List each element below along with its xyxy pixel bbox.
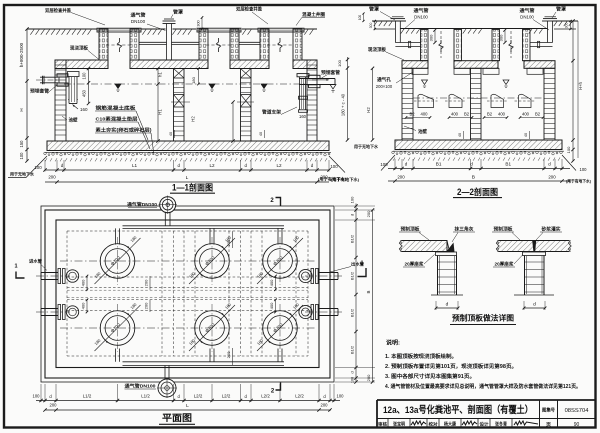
svg-text:3. 图中各部尺寸详见本图集第91页。: 3. 图中各部尺寸详见本图集第91页。 — [385, 372, 475, 380]
svg-text:450: 450 — [82, 89, 87, 97]
svg-text:L2/2: L2/2 — [194, 394, 203, 399]
svg-text:B2: B2 — [487, 112, 493, 117]
svg-text:通气管: 通气管 — [414, 7, 429, 14]
svg-text:DN100: DN100 — [414, 15, 428, 20]
svg-text:H2: H2 — [191, 116, 196, 122]
svg-text:B1/2: B1/2 — [350, 308, 355, 317]
svg-text:1. 本图顶板按现浇顶板绘制。: 1. 本图顶板按现浇顶板绘制。 — [385, 352, 457, 360]
svg-text:100: 100 — [82, 72, 87, 80]
svg-text:L: L — [186, 175, 189, 181]
svg-text:现浇顶板: 现浇顶板 — [368, 46, 386, 53]
svg-text:200: 200 — [397, 175, 405, 180]
svg-text:400: 400 — [81, 279, 86, 286]
svg-text:2—2剖面图: 2—2剖面图 — [457, 186, 498, 197]
svg-text:150: 150 — [19, 140, 24, 148]
svg-text:B1/2: B1/2 — [350, 234, 355, 243]
svg-text:L1/2: L1/2 — [141, 394, 150, 399]
svg-text:100: 100 — [33, 394, 41, 399]
svg-text:(用于有地下水): (用于有地下水) — [331, 176, 360, 182]
svg-text:L1: L1 — [132, 163, 138, 168]
svg-text:200: 200 — [366, 374, 371, 381]
svg-text:B2: B2 — [535, 112, 541, 117]
svg-text:160: 160 — [80, 107, 88, 112]
svg-text:池壁: 池壁 — [418, 128, 427, 135]
svg-text:400: 400 — [522, 112, 530, 117]
svg-text:池壁: 池壁 — [69, 117, 78, 124]
svg-text:90: 90 — [574, 422, 580, 428]
svg-text:杨大康: 杨大康 — [444, 421, 457, 428]
svg-text:校对: 校对 — [429, 421, 439, 428]
svg-text:300: 300 — [499, 34, 504, 41]
svg-text:100: 100 — [380, 162, 388, 167]
svg-text:B1: B1 — [505, 161, 511, 166]
svg-text:1: 1 — [360, 261, 363, 267]
svg-text:40: 40 — [458, 133, 462, 137]
svg-text:100: 100 — [351, 377, 355, 383]
svg-text:L2: L2 — [209, 163, 215, 168]
svg-text:L2/2: L2/2 — [222, 394, 231, 399]
svg-text:通气管: 通气管 — [131, 12, 146, 19]
svg-text:200: 200 — [144, 302, 149, 309]
svg-text:预制顶板: 预制顶板 — [494, 226, 513, 233]
svg-text:08SS704: 08SS704 — [565, 408, 590, 414]
svg-text:现浇顶板: 现浇顶板 — [70, 45, 88, 52]
svg-text:管罩: 管罩 — [173, 9, 184, 16]
svg-text:预埋套管: 预埋套管 — [321, 69, 341, 76]
svg-text:300: 300 — [197, 20, 201, 26]
svg-text:通气管: 通气管 — [520, 7, 535, 14]
svg-text:B: B — [366, 290, 371, 293]
svg-text:1—1剖面图: 1—1剖面图 — [172, 182, 213, 193]
svg-text:审核: 审核 — [378, 421, 388, 428]
svg-text:d: d — [350, 371, 355, 373]
svg-text:预制顶板做法详图: 预制顶板做法详图 — [452, 313, 514, 323]
svg-text:h1: h1 — [158, 72, 163, 77]
svg-text:管罩: 管罩 — [369, 6, 380, 13]
svg-text:平面图: 平面图 — [162, 413, 192, 423]
svg-text:200: 200 — [366, 210, 371, 217]
svg-text:400: 400 — [81, 302, 86, 309]
svg-text:100: 100 — [337, 59, 342, 66]
svg-text:双层检查井盖: 双层检查井盖 — [45, 7, 71, 14]
svg-text:200: 200 — [48, 175, 56, 180]
svg-text:300: 300 — [429, 34, 434, 41]
svg-text:100: 100 — [566, 146, 571, 153]
svg-text:H+h: H+h — [578, 81, 583, 89]
svg-text:B: B — [472, 175, 475, 181]
svg-text:100: 100 — [580, 167, 588, 172]
svg-text:H2: H2 — [366, 107, 371, 113]
svg-text:400: 400 — [269, 302, 274, 309]
svg-text:用于无地下水: 用于无地下水 — [9, 171, 35, 177]
svg-text:DN100: DN100 — [131, 19, 146, 24]
svg-text:张冬青: 张冬青 — [495, 421, 508, 428]
svg-text:通气孔: 通气孔 — [377, 76, 392, 83]
svg-text:双层检查井盖: 双层检查井盖 — [236, 6, 262, 13]
svg-text:B1: B1 — [436, 161, 442, 166]
svg-text:管罩: 管罩 — [556, 6, 567, 13]
svg-text:400: 400 — [421, 112, 429, 117]
svg-text:L2: L2 — [276, 163, 282, 168]
svg-text:d: d — [446, 302, 449, 308]
svg-text:200: 200 — [226, 239, 231, 246]
svg-text:B1/2: B1/2 — [350, 271, 355, 280]
svg-text:砂浆灌实: 砂浆灌实 — [540, 226, 560, 233]
svg-text:L: L — [186, 403, 189, 409]
svg-text:管道支架: 管道支架 — [262, 109, 282, 116]
svg-text:100: 100 — [337, 394, 345, 399]
svg-text:图集号: 图集号 — [542, 407, 556, 414]
svg-text:通气管DN100: 通气管DN100 — [125, 383, 157, 390]
svg-text:300: 300 — [369, 22, 373, 28]
svg-text:页: 页 — [546, 421, 551, 428]
svg-text:180 + c - 40: 180 + c - 40 — [341, 93, 346, 116]
svg-text:钢筋混凝土底板: 钢筋混凝土底板 — [96, 105, 136, 112]
svg-text:100: 100 — [34, 165, 42, 170]
svg-text:2. 预制顶板布置详见第101页，现浇顶板详见第98页。: 2. 预制顶板布置详见第101页，现浇顶板详见第98页。 — [385, 362, 517, 370]
svg-text:200×100: 200×100 — [376, 84, 393, 89]
svg-text:400: 400 — [451, 112, 459, 117]
svg-text:4. 通气管管材及位置最高要求详见总说明，通气管管罩大样及防: 4. 通气管管材及位置最高要求详见总说明，通气管管罩大样及防水套管做法详见第12… — [385, 382, 581, 390]
svg-text:200: 200 — [226, 351, 231, 358]
svg-text:DN100: DN100 — [520, 15, 534, 20]
svg-text:用于无地下水: 用于无地下水 — [353, 143, 379, 149]
svg-text:180: 180 — [191, 76, 196, 83]
svg-text:20厚座浆: 20厚座浆 — [405, 261, 424, 268]
svg-text:h+800-2500: h+800-2500 — [19, 42, 24, 67]
svg-text:200: 200 — [548, 175, 556, 180]
svg-text:400: 400 — [269, 279, 274, 286]
svg-text:H: H — [19, 108, 24, 111]
svg-text:H1: H1 — [158, 109, 163, 115]
svg-text:设计: 设计 — [480, 421, 490, 428]
svg-text:B1/2: B1/2 — [350, 345, 355, 354]
svg-text:C10素混凝土垫层: C10素混凝土垫层 — [96, 116, 138, 123]
svg-text:说明:: 说明: — [386, 339, 400, 347]
svg-text:400: 400 — [498, 112, 506, 117]
svg-text:100: 100 — [330, 164, 338, 169]
svg-text:100: 100 — [19, 152, 24, 160]
svg-text:12a、13a号化粪池平、剖面图（有覆土）: 12a、13a号化粪池平、剖面图（有覆土） — [383, 404, 533, 415]
svg-text:L1/2: L1/2 — [83, 394, 92, 399]
svg-text:B2: B2 — [409, 112, 415, 117]
svg-text:张宝明: 张宝明 — [393, 421, 406, 428]
svg-text:20厚座浆: 20厚座浆 — [495, 261, 514, 268]
svg-text:通气管DN100: 通气管DN100 — [127, 201, 158, 208]
svg-text:预埋套管: 预埋套管 — [30, 88, 50, 95]
svg-text:预制顶板: 预制顶板 — [401, 226, 420, 233]
svg-text:混凝土井圈: 混凝土井圈 — [302, 11, 326, 18]
svg-text:d: d — [533, 302, 536, 308]
svg-text:进水管: 进水管 — [29, 258, 43, 265]
svg-text:L2/2: L2/2 — [295, 394, 304, 399]
svg-text:L2/2: L2/2 — [261, 394, 270, 399]
svg-text:200: 200 — [50, 403, 58, 408]
svg-text:200: 200 — [144, 279, 149, 286]
svg-text:40: 40 — [169, 132, 173, 136]
svg-text:100: 100 — [358, 15, 362, 21]
svg-text:d: d — [350, 214, 355, 216]
svg-text:素土夯实(卵石或碎石层): 素土夯实(卵石或碎石层) — [96, 127, 152, 134]
svg-text:40: 40 — [524, 133, 528, 137]
svg-text:1: 1 — [14, 264, 17, 270]
svg-text:100: 100 — [350, 196, 355, 203]
svg-text:200: 200 — [321, 403, 329, 408]
svg-text:B2: B2 — [464, 112, 470, 117]
svg-text:抹三角灰: 抹三角灰 — [455, 226, 474, 233]
svg-text:160: 160 — [299, 114, 307, 119]
svg-text:300: 300 — [565, 22, 569, 28]
svg-text:(用于有地下水): (用于有地下水) — [566, 179, 592, 184]
svg-text:40: 40 — [259, 132, 263, 136]
